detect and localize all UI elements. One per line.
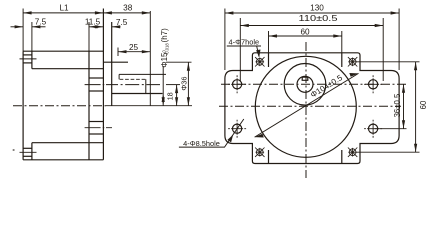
- corner holes phi8.5: [228, 75, 382, 137]
- flange hole centerline ticks: [85, 127, 112, 129]
- svg-text:7.5: 7.5: [35, 17, 47, 26]
- flange hole rungs top: [89, 77, 103, 79]
- 110: [239, 18, 241, 81]
- 4-phi8.5hole leader: [179, 119, 244, 147]
- svg-text:Φ150-0.018(h7): Φ150-0.018(h7): [160, 28, 170, 68]
- 25: [118, 50, 127, 53]
- keyway hidden dashed line: [120, 78, 146, 80]
- phi15 dim: [162, 66, 164, 106]
- stray mark left edge: [13, 149, 15, 151]
- motor body outline: [22, 51, 24, 160]
- boss circle: [284, 64, 326, 106]
- shaft circle: [297, 76, 313, 92]
- svg-text:4-Φ8.5hole: 4-Φ8.5hole: [183, 139, 220, 148]
- L1: [23, 11, 32, 14]
- L1 dim: [22, 9, 24, 52]
- 25 dim: [117, 48, 119, 57]
- big body circle: [255, 56, 356, 157]
- flange hole rungs bottom: [89, 121, 103, 123]
- 7.5 right dim: [112, 26, 121, 28]
- rear column: [31, 51, 33, 68]
- svg-text:36±0.5: 36±0.5: [393, 93, 402, 117]
- ear holes phi7 with X: [255, 57, 357, 157]
- dimension lines: [11, 9, 189, 106]
- body inner lines: [32, 68, 104, 70]
- 36 dim right: [375, 128, 407, 130]
- 38: [103, 11, 112, 14]
- rear rungs top: [23, 54, 32, 56]
- rear rungs bottom: [23, 147, 32, 149]
- centerline left view: [13, 105, 106, 107]
- right view dims: [225, 9, 420, 153]
- flange plate faces: [88, 51, 90, 160]
- svg-text:L1: L1: [59, 4, 69, 13]
- svg-text:11.5: 11.5: [85, 17, 101, 26]
- 7.5R: [112, 25, 121, 28]
- phi36: up at 62.2, down at 105.7 (inside): [187, 62, 190, 70]
- svg-text:25: 25: [129, 43, 139, 52]
- 11.5 dim: [88, 22, 90, 51]
- keyway: [302, 77, 308, 80]
- svg-text:Φ104±0.5: Φ104±0.5: [309, 73, 345, 100]
- 60: [268, 31, 270, 53]
- phi36 dim: [187, 62, 189, 105]
- 18-dim extension: [166, 84, 180, 86]
- phi15: down at 93.5, up at 105.7: [162, 94, 165, 103]
- right view arrowheads: [225, 11, 417, 152]
- 4-phi7hole leader: [227, 46, 261, 57]
- 18: up at 84.5, down at 105.7 (inside): [175, 85, 178, 94]
- keyway slot top edge: [119, 73, 166, 75]
- ear inner verticals: [268, 53, 270, 67]
- svg-text:38: 38: [123, 4, 133, 13]
- 7.5 left dim: [31, 22, 33, 51]
- plate outline: [225, 53, 399, 164]
- svg-text:60: 60: [300, 27, 310, 36]
- centerlines: [221, 83, 407, 85]
- 38 dim: [103, 12, 150, 14]
- 130: [224, 9, 226, 71]
- 18 dim: [176, 85, 178, 106]
- svg-text:60: 60: [419, 100, 428, 109]
- svg-text:130: 130: [310, 4, 324, 13]
- svg-text:110±0.5: 110±0.5: [299, 14, 339, 23]
- pilot boss: [111, 22, 113, 106]
- svg-text:7.5: 7.5: [116, 18, 128, 27]
- svg-text:4-Φ7hole: 4-Φ7hole: [229, 37, 260, 46]
- 60 dim right: [357, 61, 420, 63]
- left view arrowheads: [15, 11, 190, 105]
- keyway end tick: [145, 79, 147, 93]
- svg-text:Φ36: Φ36: [179, 77, 188, 91]
- svg-text:18: 18: [166, 92, 175, 100]
- 11.5 outside arrows: [89, 25, 98, 28]
- 7.5L outside arrows: [15, 25, 24, 28]
- phi104 diagonal dim: [255, 73, 359, 137]
- output shaft: [112, 93, 163, 95]
- keyway/flange-hole centerline dash-dot: [85, 84, 160, 86]
